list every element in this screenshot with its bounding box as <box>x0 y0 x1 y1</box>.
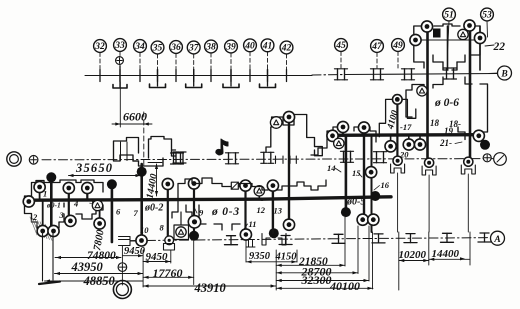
outline top-right apparatus <box>414 24 480 68</box>
outline left apparatus <box>25 180 104 228</box>
channel bracket at x=157.5 <box>150 84 166 88</box>
dimension line 21850 <box>276 264 345 266</box>
node balloon 53 <box>481 8 494 21</box>
music note mark <box>216 139 228 155</box>
arrowhead 43950 right <box>138 272 143 275</box>
polarity symbol (122.4,267) <box>118 263 127 272</box>
node contact (408.8,144.5) <box>403 139 414 150</box>
svg-text:9: 9 <box>199 208 204 218</box>
leader from balloon 36 <box>175 54 177 76</box>
leader from balloon 32 <box>99 53 101 76</box>
junction big dot (141.7,171.7) <box>137 167 147 177</box>
svg-text:6600: 6600 <box>123 110 147 124</box>
junction big dot (345.9,212) <box>341 207 351 217</box>
leader from balloon 49 <box>397 52 399 69</box>
leader label 9 <box>195 208 198 213</box>
wire vertical x364 mid <box>363 135 365 220</box>
node contact at (469.5,25.5) <box>464 20 475 31</box>
wire stem (390.6,146.3) <box>390 135 392 146</box>
dimension line 17760 <box>143 276 194 278</box>
dimension line 35650 <box>69 175 141 177</box>
terminal circle with pointer right end <box>494 153 507 166</box>
node contact (39.6,187) <box>34 181 45 192</box>
leader label 16 <box>374 186 380 191</box>
wire bottom centerline left segment <box>130 239 330 241</box>
leader from balloon 45 <box>340 52 342 69</box>
svg-text:40: 40 <box>244 42 255 52</box>
wire vertical x346 mid <box>345 135 348 212</box>
extension line x193.7 long <box>193 241 195 285</box>
transducer triangle (181,232) <box>176 227 186 237</box>
outline center tower Tb <box>266 115 322 156</box>
arrowhead 40100 right <box>368 287 373 290</box>
transducer triangle (97.5,205.5) <box>92 200 102 210</box>
node contact (53.5,231) <box>48 225 59 236</box>
leader from balloon 35 <box>157 54 159 76</box>
svg-text:ø 0-6: ø 0-6 <box>434 97 459 109</box>
dimension line 9350-4150 <box>246 261 297 263</box>
dimension line 40100 <box>276 287 373 289</box>
svg-text:21-: 21- <box>439 138 452 148</box>
wire stem x167.8 <box>167 184 169 241</box>
node source double circle left <box>7 152 21 166</box>
tick extension at x=193.7 <box>193 70 195 87</box>
svg-text:7800: 7800 <box>92 228 107 251</box>
wire upper bus y135 <box>331 133 481 137</box>
tick mark 32 on rail <box>99 70 101 82</box>
node contact (478.8,135.8) <box>473 130 484 141</box>
svg-text:32300: 32300 <box>301 273 332 287</box>
arrowhead 6600 right <box>144 122 149 125</box>
svg-text:13: 13 <box>274 206 283 216</box>
extension line below balloon 33 <box>119 82 121 127</box>
node balloon 32 <box>94 40 107 53</box>
node balloon 51 <box>443 8 456 21</box>
relay box around triangle <box>174 225 189 240</box>
node balloon 35 <box>151 41 164 54</box>
extension line x369 <box>368 226 370 281</box>
svg-text:10: 10 <box>140 225 149 235</box>
arrowhead 28700 left <box>277 271 282 274</box>
tick mark 35 on rail <box>157 70 159 82</box>
rail joint inside top-right structure <box>446 68 448 79</box>
transducer triangle (422,90.8) <box>417 86 427 96</box>
node contact (390.6,146.3) <box>385 141 396 152</box>
junction big dot (485,145) <box>480 140 490 150</box>
tick mark 37 on rail <box>193 70 195 82</box>
tick mark 41 on rail <box>267 70 269 82</box>
svg-text:34: 34 <box>134 42 145 52</box>
arrowhead 14400b left <box>429 258 434 261</box>
tick extension at x=157.5 <box>157 70 159 87</box>
wire stem x111.9 big <box>111 184 114 242</box>
svg-text:3: 3 <box>59 210 65 220</box>
dimension line 74800 <box>55 257 121 259</box>
junction big dot (51,177) <box>46 172 56 182</box>
extension line x398.8 long <box>398 232 400 290</box>
node contact (194,183.5) <box>188 178 199 189</box>
channel bracket at x=193.7 <box>186 84 202 88</box>
svg-text:16: 16 <box>381 180 390 190</box>
svg-text:37: 37 <box>188 44 200 54</box>
post foot <box>39 282 60 285</box>
wire stem (364,127.5) <box>363 128 365 136</box>
svg-text:6: 6 <box>116 207 121 217</box>
svg-text:40100: 40100 <box>329 279 360 293</box>
svg-text:17760: 17760 <box>153 266 183 280</box>
svg-text:19: 19 <box>444 126 454 136</box>
wire main bus right segment <box>262 197 391 199</box>
node contact (245.5,185.6) <box>240 180 251 191</box>
wire bottom centerline right segment <box>330 238 491 239</box>
node contact (362.7,219.7) <box>357 214 368 225</box>
wire middle centerline dash-dot <box>42 159 496 160</box>
tick mark 36 on rail <box>175 70 177 82</box>
dimension line 43910 <box>143 285 276 287</box>
dimension line 10200 <box>399 260 429 262</box>
tick mark 40 on rail <box>249 70 251 82</box>
tick mark 38 on rail <box>210 70 212 82</box>
extension for 14400 top <box>148 162 162 164</box>
outline center tower Tb feet <box>276 156 297 163</box>
svg-text:B: B <box>500 70 507 80</box>
wire horizontal link y40 top right <box>416 39 481 41</box>
outline 4100 pocket <box>379 99 416 136</box>
arrowhead 43950 left <box>55 272 60 275</box>
svg-text:49: 49 <box>392 41 403 51</box>
node contact at (480,38) <box>474 32 485 43</box>
wire stem from relay box <box>180 212 182 225</box>
wire vertical x273 mid <box>272 186 274 233</box>
tick extension at x=267.5 <box>267 70 269 87</box>
node contact (420,144.5) <box>414 139 425 150</box>
svg-text:35: 35 <box>152 44 163 54</box>
arrowhead 32300 right <box>364 279 369 282</box>
arrowhead 43910 left <box>144 284 149 287</box>
node balloon 38 <box>205 40 218 53</box>
rail joint mid line x232 <box>228 153 230 164</box>
wire stem (343,127) <box>342 127 344 135</box>
leader from balloon 53 <box>486 21 489 37</box>
node contact (371.1,172.2) <box>366 167 377 178</box>
extension line x170.8 <box>170 250 172 263</box>
wire top rail line dash-dot middle <box>312 74 345 77</box>
arrowhead 21850 left <box>277 264 282 267</box>
arrowhead 9450b right <box>165 260 170 263</box>
arrowhead 35650 left <box>69 174 74 177</box>
dimension line 14400 bottom <box>429 258 470 260</box>
arrowhead 10200 left <box>399 259 404 262</box>
wire stem x259.3 <box>258 191 260 199</box>
svg-text:4150: 4150 <box>275 251 298 262</box>
outline center lower left leg <box>172 199 240 230</box>
small square contact with diagonal <box>231 182 238 189</box>
arrowhead 9450a <box>138 254 143 257</box>
channel bracket at x=267.5 <box>260 84 276 88</box>
arrowhead 21850 right <box>340 264 345 267</box>
tower block A inner coil lines <box>120 142 122 161</box>
pedestal contact x397.6 <box>391 164 405 173</box>
arrowhead 9350 left <box>247 260 252 263</box>
node contact (167.8,184) <box>162 178 173 189</box>
node balloon 41 <box>261 39 274 52</box>
arrowhead 48850 left <box>45 279 50 282</box>
svg-text:43950: 43950 <box>71 260 104 274</box>
wire stem x289 tall <box>288 117 290 225</box>
track support I-beam x231 <box>227 235 236 237</box>
svg-text:ø0-2: ø0-2 <box>144 203 163 214</box>
svg-text:35650: 35650 <box>75 161 113 175</box>
node contact (272.9,185.6) <box>267 180 278 191</box>
extension line x345 <box>344 217 346 266</box>
node contact (28.8,201.5) <box>23 196 34 207</box>
leader from balloon 34 <box>139 53 141 76</box>
wire stem (420,144.5) <box>419 135 421 145</box>
svg-text:18: 18 <box>430 118 440 128</box>
outline center lower profile <box>178 178 326 199</box>
leader label 14 <box>335 168 341 172</box>
arrowhead 74800 right <box>116 256 121 259</box>
node contact at (415.5,40) <box>410 34 421 45</box>
wire stem x51.3 big <box>50 177 53 231</box>
arrowhead 6600 left <box>115 122 120 125</box>
node balloon 37 <box>187 41 200 54</box>
node contact (68.8,188) <box>63 182 74 193</box>
svg-text:14400: 14400 <box>145 173 160 200</box>
wire stem x42.7 bottom <box>42 200 44 231</box>
svg-text:14400: 14400 <box>432 248 460 260</box>
wire stem x141.7 big <box>140 164 143 241</box>
svg-text:33: 33 <box>114 41 125 51</box>
node contact (99.6,223.5) <box>94 218 105 229</box>
wire stem x194 <box>193 184 195 237</box>
wire drop x397.6 to bottom line <box>397 173 399 232</box>
relay box beside big dot (112,242) <box>119 237 137 246</box>
dimension line 6600 <box>112 123 152 125</box>
node contact (87.3,188) <box>82 182 93 193</box>
dimension line 28700 <box>276 272 358 274</box>
extension line x246 <box>245 240 247 262</box>
svg-text:2: 2 <box>32 212 38 222</box>
wire drop x429.1 to bottom line <box>428 175 430 232</box>
node balloon 45 <box>335 39 348 52</box>
long tick under balloon 33 <box>119 66 121 87</box>
contact with box (169,241) <box>165 236 174 245</box>
arrowhead 28700 right <box>353 271 358 274</box>
pedestal contact x429.1 <box>422 166 436 175</box>
wire stem x99.6 bottom <box>99 200 101 223</box>
arrowhead 40100 left <box>277 287 282 290</box>
node balloon 49 <box>392 39 405 52</box>
wire stem (397.3,99.4) down to pedestal <box>396 102 398 161</box>
dimension line 32300 <box>276 280 369 282</box>
tick mark 33 on rail <box>119 70 121 82</box>
svg-text:ø0-5: ø0-5 <box>346 197 365 208</box>
svg-text:41: 41 <box>262 42 273 52</box>
node balloon 33 <box>114 39 127 52</box>
svg-text:11: 11 <box>249 219 257 229</box>
arrowhead 9450b left <box>144 260 149 263</box>
junction big dot (273.8,233.2) <box>269 228 279 238</box>
node contact (364,127.5) <box>358 122 369 133</box>
polarity symbol under balloon 33 <box>116 57 124 65</box>
leader from balloon 38 <box>210 53 212 76</box>
transducer triangle (259.3,190.8) <box>254 186 264 196</box>
svg-text:39: 39 <box>225 43 236 53</box>
node contact (397.3,99.4) <box>393 95 403 105</box>
leader 21 <box>455 142 462 144</box>
wire stem (408.8,144.5) <box>408 135 410 145</box>
leader from balloon 40 <box>249 52 251 76</box>
wire stem x68.8 <box>68 188 70 221</box>
node balloon 40 <box>244 39 257 52</box>
arrowhead 74800 left <box>56 256 61 259</box>
wire drop x468.3 to bottom line <box>467 174 469 232</box>
svg-text:22: 22 <box>493 41 506 53</box>
rail joint mid line x177 <box>173 153 175 164</box>
leader from balloon 33 <box>119 52 121 76</box>
leader label 11 <box>244 224 248 229</box>
extension line 6600 right dashed <box>143 112 145 170</box>
rail joint mid line x380 <box>376 152 378 163</box>
bracket marks under (245.9,234.5) <box>246 240 255 248</box>
svg-text:53: 53 <box>482 11 492 21</box>
bracket under balloon 33 <box>113 85 127 89</box>
arrowhead 17760 left <box>144 276 149 279</box>
dimension line 43950 <box>55 273 144 275</box>
trouser outline below big dot (273.8,233) <box>262 234 286 246</box>
dimension line 14400 vertical <box>156 164 158 196</box>
track support I-beam x447 <box>443 232 452 234</box>
leader from balloon 41 <box>267 52 269 76</box>
arrowhead 43910 right <box>271 284 276 287</box>
svg-text:42: 42 <box>281 44 292 54</box>
dimension line 9450 first <box>122 255 143 257</box>
node contact (141.5,240.5) <box>136 235 147 246</box>
node balloon 34 <box>134 40 147 53</box>
leader label 15 <box>358 173 362 178</box>
node contact (289,117) <box>283 111 294 122</box>
svg-text:4: 4 <box>73 199 78 209</box>
svg-text:36: 36 <box>170 43 181 53</box>
svg-text:47: 47 <box>371 42 383 52</box>
node contact (373.3,219.7) <box>368 214 379 225</box>
transducer triangle tower Tb <box>270 117 282 129</box>
extension line x297 <box>296 250 298 262</box>
outline top-right apparatus lower steps <box>443 62 457 70</box>
channel bracket at x=231 <box>223 84 239 88</box>
svg-text:8: 8 <box>160 223 165 233</box>
extension line x470 <box>469 232 471 265</box>
wire stem x39.6 <box>39 187 41 200</box>
tick extension at x=231 <box>230 70 232 87</box>
wire vertical x371.5 <box>371 135 373 232</box>
transducer triangle top-right <box>458 29 468 39</box>
tick mark 42 on rail <box>286 70 288 82</box>
hatching pencil shading left structure <box>30 217 37 235</box>
track support I-beam x338.5 <box>334 233 343 235</box>
wire main bus left segment <box>29 199 262 200</box>
svg-text:10200: 10200 <box>399 249 427 261</box>
svg-text:45: 45 <box>335 41 346 51</box>
polarity symbol right centerline <box>483 154 491 162</box>
leader from balloon 39 <box>230 53 232 76</box>
junction big dot (375.3,196) <box>370 191 380 201</box>
svg-text:51: 51 <box>444 11 454 21</box>
arrowhead 32300 left <box>277 279 282 282</box>
node terminal B <box>498 66 512 80</box>
track support I-beam x410.5 <box>406 233 415 235</box>
node contact (70.4,221) <box>65 215 76 226</box>
arrowhead 14400 bottom <box>155 191 158 196</box>
junction big dot (194,235.8) <box>189 231 199 241</box>
dimension line 48850 <box>45 280 144 282</box>
node terminal A <box>491 231 505 245</box>
transducer triangle (338.8,143.4) <box>334 138 344 148</box>
outline tower block A inner lines <box>120 155 139 161</box>
svg-text:9450: 9450 <box>146 251 169 263</box>
rail joint right of 49 <box>404 69 406 80</box>
wire top rail line right segment <box>345 74 497 75</box>
svg-text:48850: 48850 <box>83 274 116 288</box>
svg-text:12: 12 <box>257 205 266 215</box>
node balloon 39 <box>225 40 238 53</box>
svg-text:ø 0-3: ø 0-3 <box>211 206 240 218</box>
track support I-beam x484.5 <box>480 232 489 234</box>
extension line x276.2 long <box>275 250 277 290</box>
svg-text:38: 38 <box>205 43 216 53</box>
svg-text:32: 32 <box>94 42 105 52</box>
leader from balloon 51 <box>448 21 450 52</box>
pedestal contact x468.3 <box>461 165 475 174</box>
track support I-beam x285.6 <box>281 235 290 237</box>
svg-text:7: 7 <box>134 208 139 218</box>
extension line x143.1 <box>142 250 144 287</box>
wire stem x87.3 <box>86 188 88 200</box>
svg-text:14: 14 <box>327 163 336 173</box>
extension post left pair <box>42 232 44 281</box>
node contact (42.7,231) <box>37 225 48 236</box>
extension line x122.4 <box>121 246 123 285</box>
svg-text:43910: 43910 <box>194 281 227 295</box>
dimension line 9450 second <box>143 261 171 263</box>
wire vertical main right x470 top <box>469 24 472 161</box>
arrowhead 10200 right <box>423 259 428 262</box>
svg-text:9450: 9450 <box>124 246 146 257</box>
node contact at (427,27) <box>421 21 432 32</box>
wire stub to B <box>489 72 498 74</box>
outline right-center step block <box>311 127 376 155</box>
node contact (343,127) <box>337 121 348 132</box>
tick mark 34 on rail <box>139 70 141 82</box>
svg-text:1: 1 <box>43 189 47 199</box>
extension line x428.8 <box>428 232 430 265</box>
wire vertical x480 <box>479 26 481 70</box>
arrowhead 4150 right <box>292 260 297 263</box>
outline tower block A <box>114 137 176 167</box>
wire vertical x447.5 <box>447 26 449 70</box>
rail joint under 47 <box>373 69 375 80</box>
tick mark 39 on rail <box>230 70 232 82</box>
wire vertical main left x427.5 top <box>426 24 429 162</box>
leader from balloon 37 <box>193 54 195 76</box>
node contact (245.9,234.5) <box>240 229 251 240</box>
wire stem x245.5 lower <box>244 186 246 235</box>
rail joint under 45 <box>337 69 339 80</box>
node balloon 47 <box>371 40 384 53</box>
instrument double circle (122.4,289.5) <box>113 281 131 299</box>
leader from balloon 47 <box>376 53 378 69</box>
